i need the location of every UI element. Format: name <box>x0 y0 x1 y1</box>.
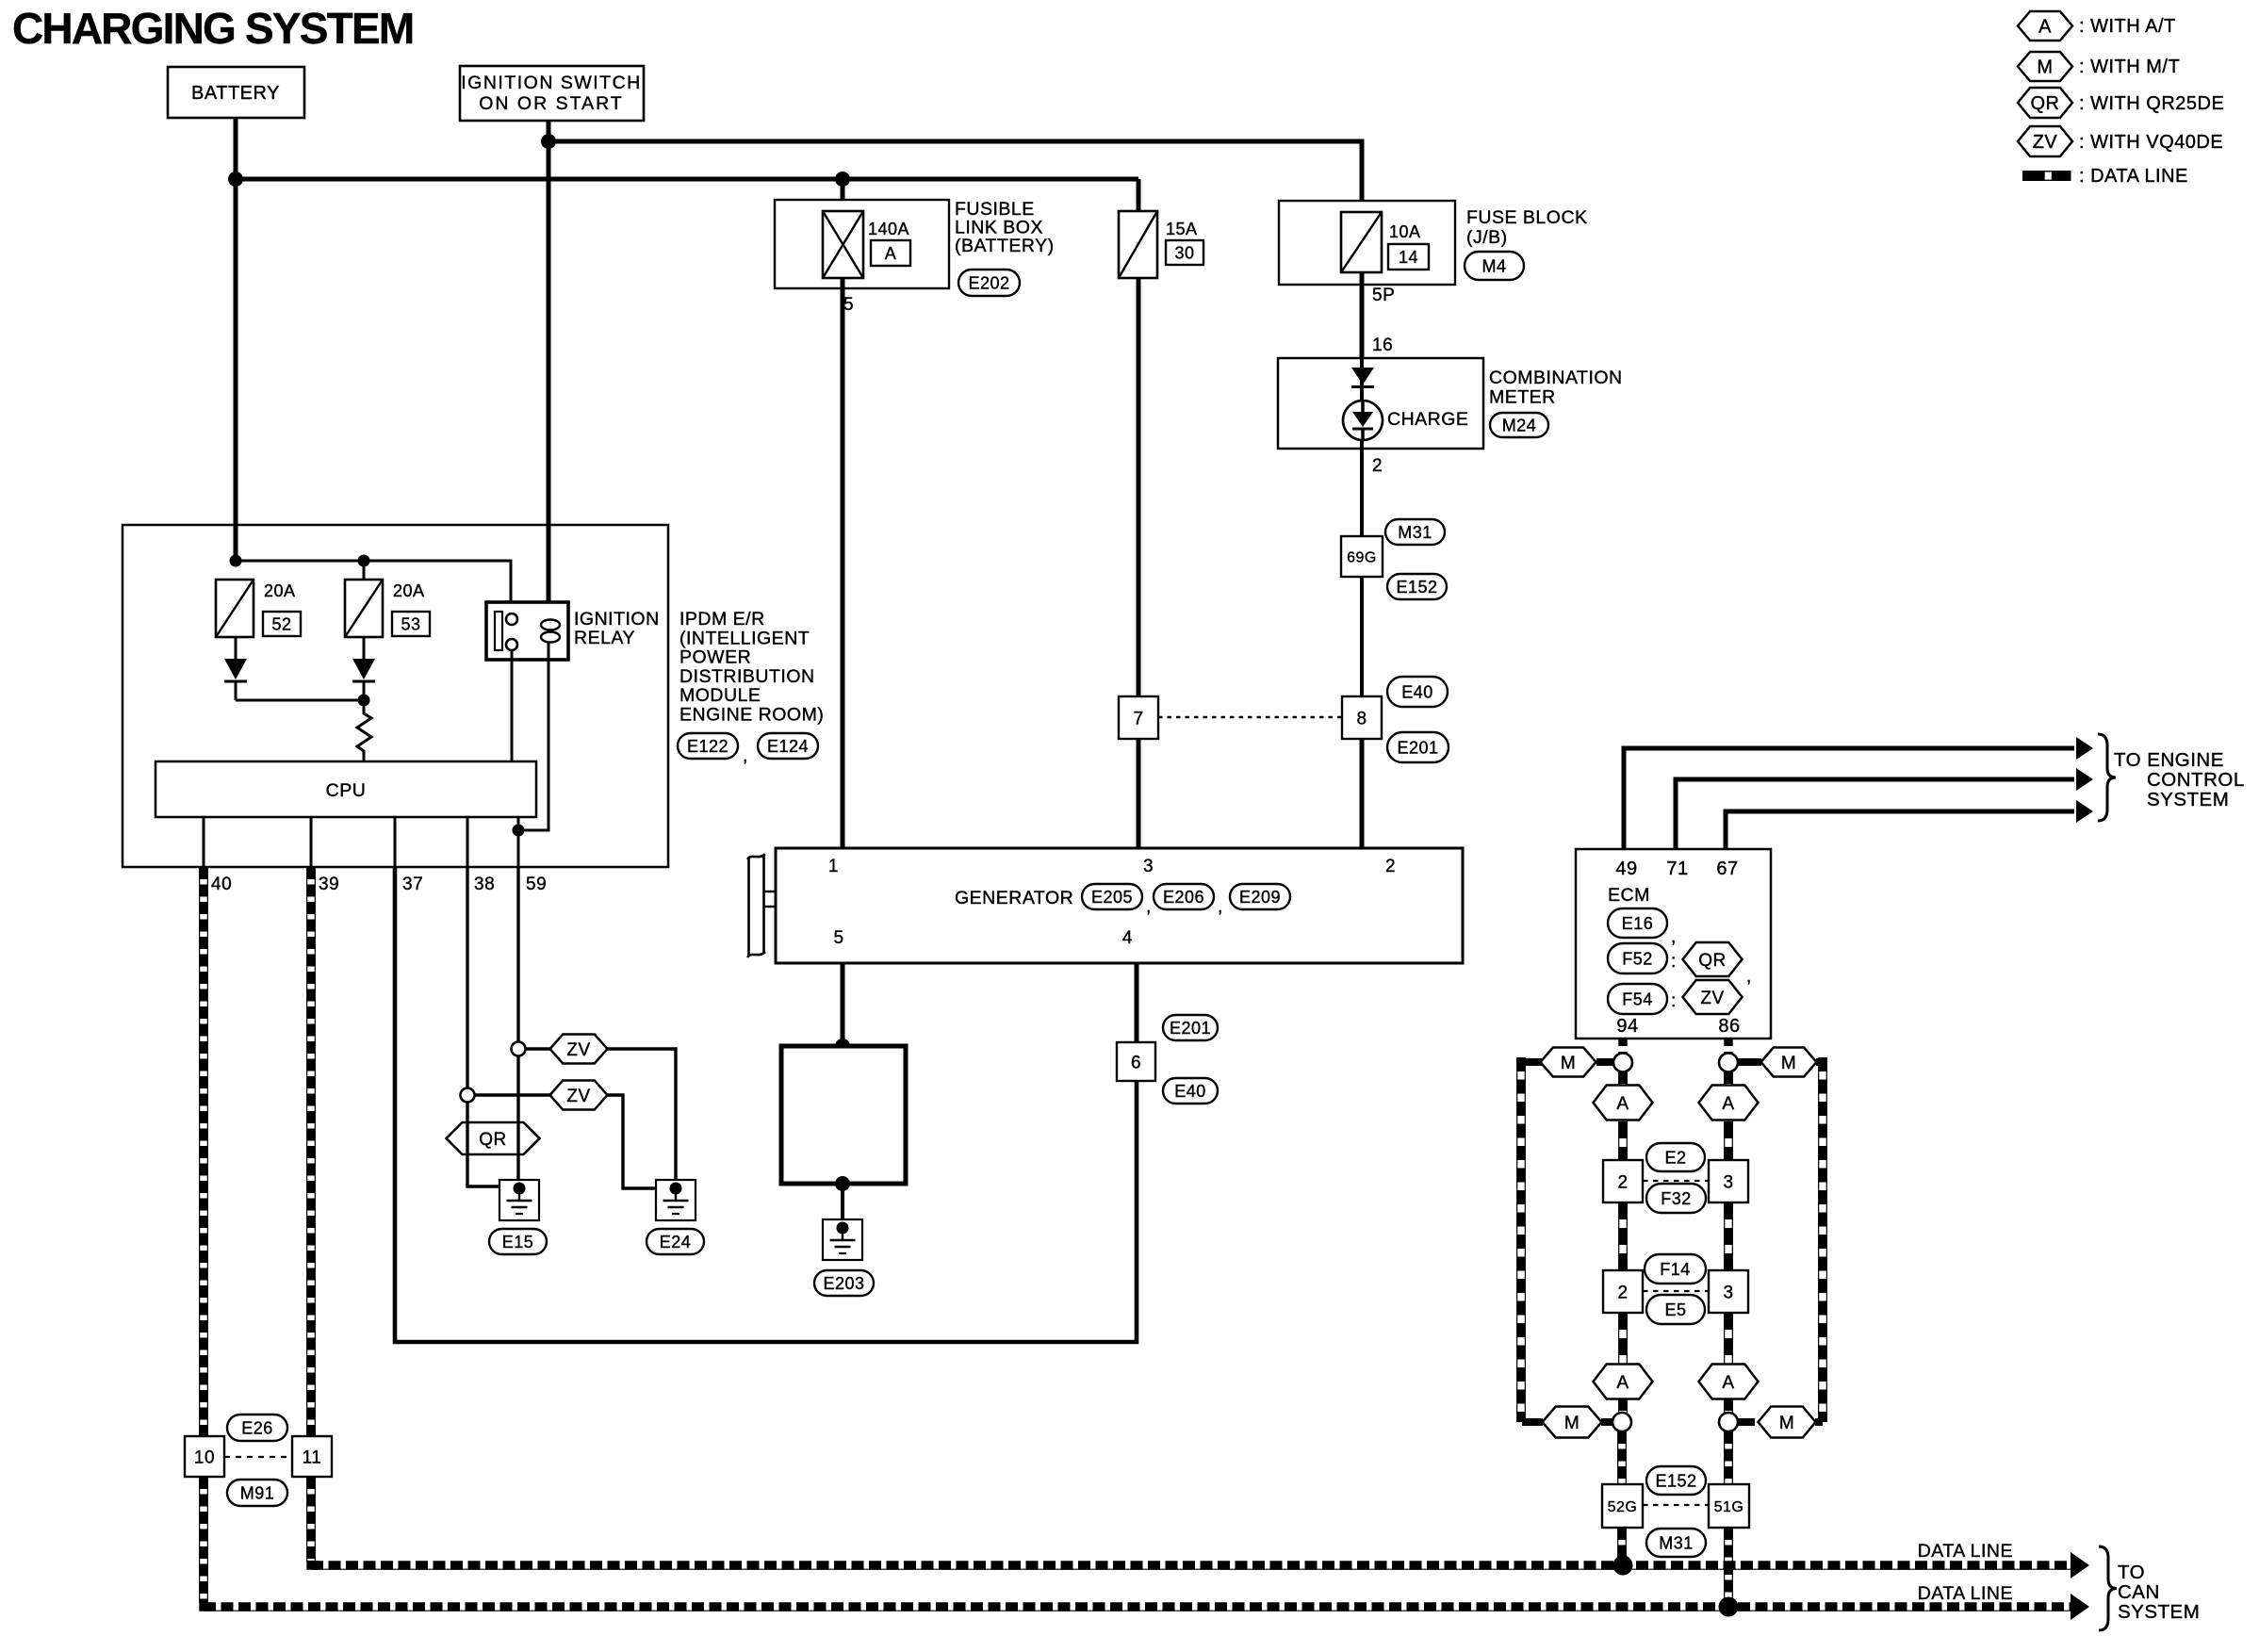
svg-text:IGNITION: IGNITION <box>574 609 660 630</box>
connector E16 <box>1608 908 1667 938</box>
connector E2 <box>1646 1143 1705 1171</box>
hexagon QR ECM <box>1683 942 1743 976</box>
brace TO CAN <box>2099 1546 2117 1630</box>
relay contact terminal bottom <box>506 639 517 650</box>
svg-text:IGNITION SWITCH: IGNITION SWITCH <box>461 73 642 93</box>
connector E24 <box>647 1229 704 1254</box>
svg-text:15A: 15A <box>1166 220 1198 238</box>
connector box 51G <box>1709 1484 1749 1528</box>
connector M4 <box>1465 252 1524 280</box>
wire connector 7 to generator pin3 <box>1137 739 1141 848</box>
svg-text:CHARGE: CHARGE <box>1387 409 1468 430</box>
wire pin38 below circle to E15 <box>467 1102 516 1186</box>
svg-text:CAN: CAN <box>2118 1581 2160 1603</box>
corner pin39 to CAN upper <box>311 1561 319 1565</box>
svg-text:SYSTEM: SYSTEM <box>2118 1601 2200 1623</box>
wire ECM pin71 to engine control <box>1676 779 2074 849</box>
svg-text::: : <box>1671 952 1677 972</box>
legend hexagon QR <box>2018 88 2072 118</box>
wire block to ground E203 <box>841 1184 844 1220</box>
arrow CAN lower <box>2071 1594 2089 1620</box>
node circle ECM 86 <box>1719 1054 1738 1072</box>
svg-text:FUSE BLOCK: FUSE BLOCK <box>1466 207 1588 228</box>
svg-text:SYSTEM: SYSTEM <box>2147 789 2229 810</box>
svg-text:E152: E152 <box>1396 578 1437 597</box>
data line col94 A to box2 <box>1619 1121 1628 1160</box>
svg-text:ZV: ZV <box>566 1040 590 1060</box>
wire CPU pin38 stub <box>467 817 469 867</box>
connector F52 <box>1608 943 1667 973</box>
svg-text:E124: E124 <box>767 737 809 756</box>
node circle pin38 <box>461 1088 475 1103</box>
svg-text:51G: 51G <box>1714 1499 1744 1515</box>
node fusible link tap <box>835 172 850 187</box>
arrow CAN upper <box>2071 1552 2089 1578</box>
svg-text:M: M <box>1564 1414 1580 1433</box>
hexagon A upper left <box>1594 1086 1653 1120</box>
connector E122 <box>678 733 738 759</box>
svg-text:16: 16 <box>1372 335 1393 355</box>
wire CPU pin37 stub <box>394 817 397 867</box>
data line pin40 upper <box>200 867 208 1436</box>
connector M31 <box>1385 519 1445 545</box>
wire fusible link drop <box>841 179 845 212</box>
data line 52G to CAN upper <box>1618 1528 1627 1565</box>
svg-text:DATA LINE: DATA LINE <box>1918 1541 2013 1562</box>
svg-text:CONTROL: CONTROL <box>2147 769 2245 791</box>
svg-text:67: 67 <box>1716 859 1738 879</box>
svg-text:ENGINE ROOM): ENGINE ROOM) <box>679 705 824 726</box>
node battery rail junction <box>228 172 243 187</box>
connector box 2 row1 <box>1603 1160 1643 1202</box>
svg-text:11: 11 <box>303 1448 322 1467</box>
data line col94 row2 to A lower <box>1619 1313 1628 1365</box>
data line pin39 lower <box>307 1477 316 1562</box>
wire fusible link to generator pin1 <box>841 278 845 848</box>
connector box 10 <box>185 1436 224 1477</box>
wire connector 8 to generator pin2 <box>1360 739 1365 848</box>
svg-text:E201: E201 <box>1397 739 1438 758</box>
svg-text:E209: E209 <box>1239 888 1281 907</box>
node circle ECM 94 <box>1613 1054 1632 1072</box>
wire upper ZV branch left <box>525 1047 550 1050</box>
svg-text:E40: E40 <box>1401 683 1433 702</box>
link M upper right to outer <box>1816 1058 1823 1066</box>
connector E152 upper <box>1387 574 1447 599</box>
fuse number box 30 <box>1166 240 1203 265</box>
svg-text:2: 2 <box>1617 1283 1628 1302</box>
node ignition rail junction <box>541 134 556 149</box>
fuse 15A symbol <box>1119 211 1157 278</box>
data line 52G column upper <box>1618 1431 1627 1484</box>
wire fuse52 drop <box>363 561 366 581</box>
link circle to M lower right <box>1738 1418 1755 1426</box>
wire ECM pin86 stub <box>1724 1039 1732 1054</box>
arrow engine control 1 <box>2076 737 2093 760</box>
connector M91 <box>227 1480 287 1506</box>
svg-text:M: M <box>1561 1054 1576 1073</box>
svg-text:QR: QR <box>2031 93 2060 114</box>
svg-text:4: 4 <box>1122 928 1133 948</box>
fuse number box 14 <box>1388 244 1429 270</box>
svg-text:,: , <box>1746 967 1752 987</box>
connector E40 lower <box>1163 1078 1218 1104</box>
battery box <box>168 67 304 118</box>
corner pin40 to CAN lower <box>204 1602 211 1607</box>
connector M24 <box>1490 413 1548 437</box>
svg-text:F54: F54 <box>1622 990 1653 1009</box>
node circle lower right <box>1719 1413 1738 1431</box>
svg-text:E205: E205 <box>1091 888 1133 907</box>
wire diode join <box>236 699 364 702</box>
wire 15A fuse to connector 7 <box>1137 278 1141 697</box>
connector box 2 row2 <box>1603 1270 1643 1313</box>
diode 2 in IPDM <box>352 637 375 700</box>
node block bottom <box>835 1176 850 1191</box>
wire CPU pin39 stub <box>310 817 313 867</box>
svg-text:E202: E202 <box>968 274 1009 293</box>
svg-text:3: 3 <box>1723 1172 1733 1192</box>
connector E202 <box>958 270 1020 296</box>
svg-text:ZV: ZV <box>2033 132 2058 153</box>
svg-text:E16: E16 <box>1622 914 1654 933</box>
connector E205 <box>1082 884 1142 909</box>
svg-text:ZV: ZV <box>1700 989 1724 1008</box>
fuse block J/B outline <box>1279 201 1455 285</box>
link M to circle lower left <box>1601 1418 1612 1426</box>
svg-text:: WITH QR25DE: : WITH QR25DE <box>2079 93 2224 114</box>
data line pin39 upper <box>307 867 316 1436</box>
ignition relay box <box>486 602 568 660</box>
generator pulley symbol <box>747 854 776 957</box>
svg-text:ECM: ECM <box>1608 885 1650 906</box>
connector F32 <box>1646 1184 1706 1213</box>
connector E201 lower <box>1163 1015 1218 1040</box>
svg-text:METER: METER <box>1489 387 1556 408</box>
hexagon M lower right <box>1759 1407 1816 1438</box>
svg-text:10: 10 <box>194 1448 215 1467</box>
label IPDM block <box>679 609 824 726</box>
svg-text:A: A <box>1616 1094 1629 1114</box>
svg-text:37: 37 <box>402 875 423 894</box>
label COMBINATION METER <box>1489 368 1623 408</box>
fuse 20A no52 symbol <box>216 580 254 637</box>
svg-text:A: A <box>1722 1094 1734 1114</box>
connector E5 <box>1646 1295 1705 1324</box>
svg-text:ZV: ZV <box>566 1087 590 1106</box>
svg-text:E5: E5 <box>1664 1300 1686 1319</box>
svg-text:E2: E2 <box>1664 1149 1686 1168</box>
svg-text:52: 52 <box>271 615 291 634</box>
svg-text:RELAY: RELAY <box>574 628 635 648</box>
svg-text:(J/B): (J/B) <box>1466 227 1508 248</box>
wire ignition vertical <box>547 121 551 619</box>
wire pin59 down <box>516 867 519 1042</box>
wire relay contact to CPU <box>511 650 514 761</box>
svg-text:F14: F14 <box>1660 1260 1691 1279</box>
wire 69G to connector 8 <box>1360 577 1364 697</box>
svg-text:: DATA LINE: : DATA LINE <box>2079 166 2188 187</box>
resistor in IPDM <box>357 700 371 761</box>
svg-text:M: M <box>1779 1414 1794 1433</box>
svg-text:3: 3 <box>1143 857 1154 876</box>
svg-text:M4: M4 <box>1481 257 1506 276</box>
svg-text:TO ENGINE: TO ENGINE <box>2114 749 2224 771</box>
legend hexagon A <box>2018 11 2072 41</box>
diode in meter <box>1351 368 1374 387</box>
connector E124 <box>758 733 818 759</box>
node IPDM rail left <box>230 555 242 567</box>
wire lower ZV branch left <box>474 1093 550 1096</box>
data line col86 row2 to A lower <box>1725 1313 1733 1365</box>
data line CAN upper horizontal <box>311 1565 2071 1569</box>
svg-text:69G: 69G <box>1347 549 1377 565</box>
svg-text:MODULE: MODULE <box>679 685 761 706</box>
svg-text::: : <box>1671 991 1677 1011</box>
hexagon ZV lower <box>550 1081 608 1110</box>
svg-text:: WITH A/T: : WITH A/T <box>2079 16 2176 37</box>
svg-text:52G: 52G <box>1608 1499 1638 1515</box>
svg-text:2: 2 <box>1617 1172 1628 1192</box>
data line col94 A to circle lower <box>1619 1398 1628 1413</box>
svg-text:E206: E206 <box>1163 888 1204 907</box>
data line 51G column upper <box>1725 1431 1733 1484</box>
wire CPU pin40 stub <box>203 817 205 867</box>
ECM box <box>1576 849 1771 1039</box>
svg-text:86: 86 <box>1718 1016 1740 1037</box>
generator internal block <box>781 1046 906 1184</box>
svg-text:,: , <box>1218 897 1223 917</box>
link outer to M lower left <box>1522 1418 1543 1426</box>
svg-text:14: 14 <box>1399 248 1418 267</box>
svg-text:49: 49 <box>1615 859 1637 879</box>
connector box 11 <box>292 1436 332 1477</box>
CPU box <box>156 761 536 817</box>
svg-text:53: 53 <box>401 615 420 634</box>
link outer left to M upper <box>1522 1058 1542 1066</box>
ground E203 <box>823 1219 862 1260</box>
data line col86 A to box3 <box>1725 1121 1733 1160</box>
connector E203 <box>814 1270 874 1296</box>
svg-text:M: M <box>1781 1054 1796 1073</box>
connector E152 lower <box>1646 1466 1706 1495</box>
svg-text:A: A <box>1616 1373 1629 1393</box>
data line col94 row1-row2 <box>1619 1202 1628 1270</box>
node diode join <box>358 695 370 707</box>
svg-text:(BATTERY): (BATTERY) <box>955 236 1055 256</box>
arrow engine control 2 <box>2076 768 2093 791</box>
connector box 8 <box>1342 696 1382 739</box>
link M lower right to outer <box>1815 1418 1823 1426</box>
data line pin40 lower <box>200 1477 208 1603</box>
generator box <box>776 848 1463 963</box>
connector F54 <box>1608 984 1667 1014</box>
label TO CAN SYSTEM <box>2118 1562 2200 1623</box>
svg-text:CPU: CPU <box>326 780 367 801</box>
fuse 10A symbol <box>1341 212 1382 272</box>
node circle lower left <box>1612 1413 1631 1431</box>
dashed link 2-3 row1 <box>1643 1180 1710 1182</box>
connector E26 <box>227 1415 287 1441</box>
arrow engine control 3 <box>2076 800 2093 823</box>
svg-text:30: 30 <box>1174 244 1194 263</box>
connector box 7 <box>1119 696 1158 739</box>
data line 51G to CAN lower <box>1725 1528 1733 1607</box>
svg-text:IPDM E/R: IPDM E/R <box>679 609 765 630</box>
wire ignition rail to J/B <box>548 141 1362 213</box>
relay contact terminal top <box>506 613 517 625</box>
wire pin59 below circle to E15 <box>516 1055 519 1186</box>
fuse 20A no53 symbol <box>345 580 383 637</box>
wire relay coil to pin59 <box>518 643 548 830</box>
wire meter to 69G <box>1360 449 1364 537</box>
svg-text:A: A <box>1722 1373 1734 1393</box>
connector box 6 <box>1117 1042 1155 1081</box>
svg-text:F32: F32 <box>1661 1189 1692 1208</box>
wire upper ZV branch to E24 <box>607 1049 676 1186</box>
wire pin38 through QR <box>466 1122 468 1154</box>
svg-text:QR: QR <box>479 1130 507 1150</box>
svg-text:5: 5 <box>843 295 854 315</box>
svg-text:GENERATOR: GENERATOR <box>955 888 1073 908</box>
legend hexagon M <box>2018 52 2072 81</box>
svg-text:20A: 20A <box>393 581 425 600</box>
label FUSE BLOCK (J/B) <box>1466 207 1588 248</box>
ground E15 <box>499 1180 539 1220</box>
svg-text:E122: E122 <box>687 737 728 756</box>
svg-text:1: 1 <box>828 857 839 876</box>
svg-text:20A: 20A <box>264 581 296 600</box>
node IPDM rail fuse2 <box>358 555 370 567</box>
svg-text:E201: E201 <box>1170 1019 1211 1038</box>
wire generator pin5 down <box>841 963 845 1046</box>
wire generator pin4 to connector 6 <box>1135 963 1139 1042</box>
svg-text:COMBINATION: COMBINATION <box>1489 368 1623 388</box>
connector E201 upper <box>1387 732 1449 762</box>
dashed link 10-11 <box>224 1456 292 1458</box>
svg-text:94: 94 <box>1616 1016 1638 1037</box>
svg-text:40: 40 <box>211 875 232 894</box>
svg-text:M24: M24 <box>1502 417 1537 435</box>
svg-text:39: 39 <box>319 875 339 894</box>
fusible link 140A symbol <box>823 211 863 278</box>
connector box 52G <box>1602 1484 1643 1528</box>
svg-text:38: 38 <box>474 875 495 894</box>
connector box 69G <box>1341 536 1383 577</box>
dashed link 7-8 <box>1158 716 1342 718</box>
svg-text:6: 6 <box>1131 1053 1141 1072</box>
wire pin59 through QR <box>516 1122 519 1154</box>
hexagon ZV upper <box>550 1035 608 1064</box>
diode 1 in IPDM <box>224 637 247 700</box>
wire battery vertical <box>234 118 238 562</box>
charge warning LED <box>1343 401 1383 440</box>
svg-text:140A: 140A <box>868 220 909 238</box>
svg-text:E152: E152 <box>1655 1472 1696 1491</box>
svg-text:E24: E24 <box>660 1233 692 1251</box>
svg-text:7: 7 <box>1133 709 1143 728</box>
hexagon ZV ECM <box>1683 980 1743 1014</box>
data line CAN lower <box>204 1607 2071 1611</box>
wire ECM pin67 to engine control <box>1726 811 2074 849</box>
hexagon M upper right <box>1761 1048 1817 1077</box>
hexagon M lower left <box>1543 1407 1602 1438</box>
connector E15 <box>489 1229 547 1254</box>
connector E40 upper <box>1387 677 1448 707</box>
svg-text:DISTRIBUTION: DISTRIBUTION <box>679 666 815 687</box>
ground E24 <box>656 1180 696 1220</box>
fusible link box (battery) outline <box>775 200 949 288</box>
wire ECM pin94 stub <box>1618 1039 1627 1054</box>
data line col94 circle to A <box>1619 1071 1628 1086</box>
svg-text:M91: M91 <box>240 1484 275 1503</box>
svg-text:,: , <box>1146 897 1152 917</box>
node block top <box>835 1039 850 1054</box>
wire connector 6 to IPDM pin37 (U path) <box>395 867 1137 1342</box>
wire ECM pin49 to engine control <box>1624 748 2074 849</box>
svg-text:71: 71 <box>1666 859 1688 879</box>
label IGNITION RELAY <box>574 609 660 648</box>
svg-text:E40: E40 <box>1174 1082 1206 1101</box>
svg-text:E26: E26 <box>241 1419 273 1438</box>
wire inside combination meter <box>1360 358 1364 449</box>
node circle pin59 <box>512 1042 526 1056</box>
hexagon A lower right <box>1699 1365 1759 1399</box>
legend data line symbol <box>2022 171 2071 181</box>
hexagon A lower left <box>1594 1365 1653 1399</box>
svg-text:ON OR START: ON OR START <box>479 93 623 114</box>
label TO ENGINE CONTROL SYSTEM <box>2114 749 2245 810</box>
dashed link 2-3 row2 <box>1643 1290 1710 1292</box>
svg-text:M31: M31 <box>1398 523 1432 542</box>
svg-text:BATTERY: BATTERY <box>191 83 280 104</box>
svg-text:DATA LINE: DATA LINE <box>1918 1583 2013 1604</box>
hexagon M upper left <box>1541 1048 1596 1077</box>
connector box 3 row1 <box>1709 1160 1748 1202</box>
svg-text:59: 59 <box>526 875 547 894</box>
node 52G junction <box>1613 1556 1633 1576</box>
svg-text:A: A <box>2038 17 2052 38</box>
svg-text:M: M <box>2037 57 2053 78</box>
combination meter box <box>1278 358 1483 449</box>
svg-text:8: 8 <box>1356 709 1367 728</box>
relay coil <box>541 620 560 643</box>
hexagon QR <box>447 1122 540 1154</box>
wire CPU pin59 stub <box>517 817 520 867</box>
svg-text:5P: 5P <box>1372 286 1395 305</box>
svg-text:2: 2 <box>1372 456 1383 476</box>
hexagon A upper right <box>1699 1086 1759 1120</box>
fusible link letter box A <box>871 240 910 266</box>
svg-text:E203: E203 <box>823 1274 864 1293</box>
connector E209 <box>1230 884 1290 909</box>
relay contact bar <box>495 612 502 650</box>
IPDM internal rail <box>236 561 511 618</box>
wire rail corner to 15A fuse <box>1137 179 1141 213</box>
svg-text:10A: 10A <box>1389 222 1421 241</box>
wire lower ZV branch to E24 <box>607 1095 673 1188</box>
svg-text:F52: F52 <box>1622 950 1653 969</box>
IPDM E/R box <box>123 525 668 867</box>
svg-text:,: , <box>1671 927 1677 947</box>
wire J/B to combination meter <box>1360 272 1365 359</box>
wire pin38 down <box>466 867 468 1088</box>
dashed link 52G-51G <box>1643 1504 1709 1506</box>
node 51G junction <box>1719 1597 1739 1617</box>
link circle to M upper right <box>1737 1058 1761 1066</box>
connector M31 lower <box>1646 1529 1706 1557</box>
node relay-pin59 join <box>513 825 525 837</box>
